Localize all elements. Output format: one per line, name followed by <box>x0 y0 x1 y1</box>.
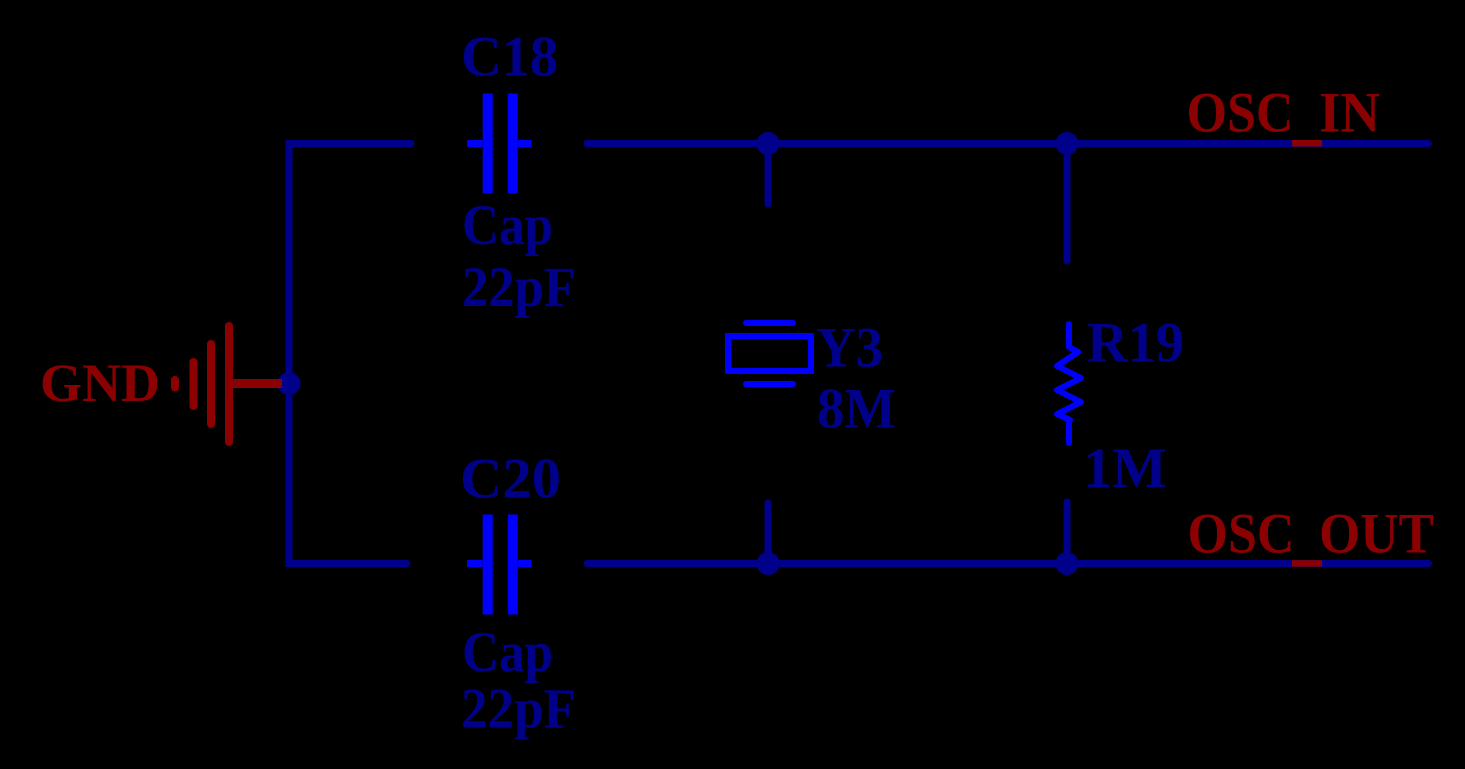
svg-text:8M: 8M <box>817 378 896 441</box>
crystal Y3 <box>728 323 811 384</box>
junction at GND node <box>278 372 301 395</box>
net label OSC_IN <box>1187 82 1381 147</box>
svg-text:22pF: 22pF <box>462 256 576 319</box>
resistor R19 <box>1057 324 1081 443</box>
svg-text:22pF: 22pF <box>461 678 576 741</box>
junction at Y3 bottom node <box>757 552 780 575</box>
svg-text:OUT: OUT <box>1319 503 1434 566</box>
ground symbol GND <box>175 326 282 442</box>
wire crystal bottom lead <box>765 503 772 564</box>
junction at R19 bottom node (OSC_OUT) <box>1056 552 1079 575</box>
wire OSC_OUT bottom horizontal <box>587 560 1429 567</box>
wire resistor bottom lead <box>1064 502 1071 564</box>
svg-text:Cap: Cap <box>462 194 553 257</box>
svg-text:Cap: Cap <box>462 621 553 684</box>
wire crystal top lead <box>765 144 772 205</box>
wire OSC_IN top horizontal <box>587 140 1429 147</box>
net label OSC_OUT <box>1188 503 1435 567</box>
wire top-left + left riser + bottom-left (GND net) <box>289 144 411 564</box>
svg-text:Y3: Y3 <box>816 317 883 380</box>
junction at R19 top node (OSC_IN) <box>1056 132 1079 155</box>
svg-text:OSC: OSC <box>1187 82 1294 145</box>
capacitor C18 <box>467 94 532 194</box>
svg-text:IN: IN <box>1319 82 1380 145</box>
wire resistor top lead <box>1064 144 1071 262</box>
svg-text:R19: R19 <box>1087 312 1184 375</box>
svg-text:GND: GND <box>40 352 160 413</box>
svg-text:1M: 1M <box>1083 437 1167 500</box>
svg-text:C18: C18 <box>461 26 558 89</box>
svg-text:OSC: OSC <box>1188 503 1295 566</box>
svg-text:C20: C20 <box>460 448 561 511</box>
capacitor C20 <box>467 515 532 615</box>
junction at C18/Y3 top node <box>757 132 780 155</box>
